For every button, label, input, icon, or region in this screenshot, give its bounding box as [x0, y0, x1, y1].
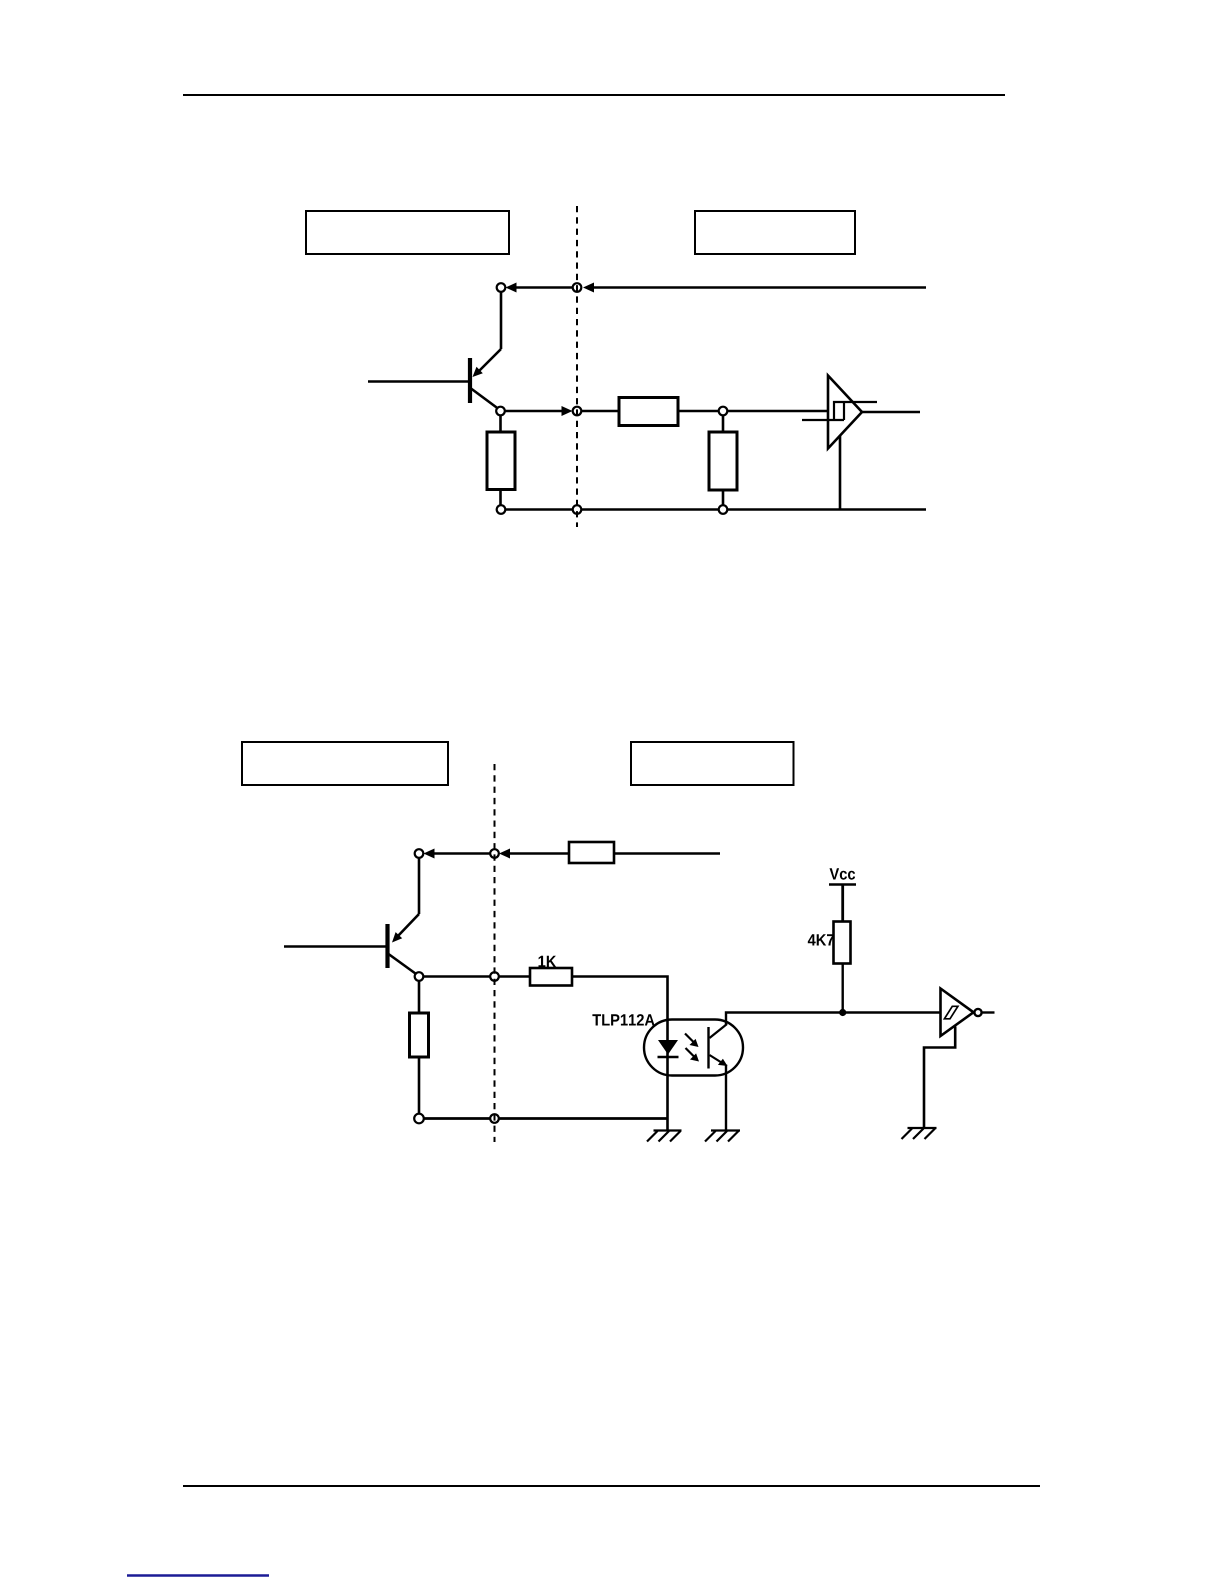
- wire (receiver reference to bottom net): [839, 436, 842, 510]
- node on barrier (bottom net 2): [490, 1114, 499, 1123]
- junction dot: [839, 1009, 846, 1016]
- wire (node C to receiver input): [728, 410, 829, 413]
- wire (bottom net, mid segment): [582, 508, 719, 511]
- phototransistor Q3 (inside optocoupler): [709, 1024, 728, 1069]
- transistor Q1 (PNP, open emitter up): [368, 293, 501, 411]
- wire (inverter output): [982, 1011, 995, 1013]
- ground (inverter): [902, 1128, 937, 1139]
- power Vcc: [829, 868, 856, 921]
- wire (resistor to node C): [678, 410, 719, 413]
- node on barrier (bottom net): [573, 505, 582, 514]
- inverter U3 (Schmitt trigger): [941, 989, 982, 1037]
- label box (top-left, isolated side): [306, 211, 509, 254]
- resistor R6 (pull-down, vertical, circuit 2): [410, 981, 429, 1114]
- label box (bottom-left, isolated side): [242, 742, 448, 785]
- node D (bottom net left): [497, 505, 506, 514]
- node on barrier (mid net 2): [490, 972, 499, 981]
- node on barrier (mid net): [573, 407, 582, 416]
- wire (phototransistor collector up and right to gate input): [726, 1013, 941, 1026]
- label box (bottom-right, logic side): [631, 742, 794, 785]
- transistor Q2 (PNP, open emitter up): [284, 859, 419, 976]
- wire (inverter ground pin, jog to ground): [924, 1027, 955, 1129]
- wire (top net, right segment): [592, 286, 926, 289]
- value label 1K: [539, 956, 557, 967]
- node H (bottom net 2, left): [414, 1114, 424, 1124]
- wire (resistor to barrier node): [510, 852, 569, 855]
- wire (bottom net 2 to LED cathode): [499, 1117, 668, 1120]
- value label 4K7: [808, 934, 834, 945]
- wire (barrier to series resistor): [582, 410, 620, 413]
- wire (bottom net, right segment): [728, 508, 927, 511]
- wire (R5 to LED anode, with corner): [572, 977, 668, 1040]
- wire (mid net, left segment): [505, 410, 562, 413]
- wire (bottom net 2, left segment): [424, 1117, 490, 1120]
- resistor R4 (series, horizontal): [569, 842, 614, 863]
- wire (top net 2, right segment): [614, 852, 720, 855]
- wire (top net, left segment): [516, 286, 573, 289]
- node G (collector node, circuit 2): [415, 972, 424, 981]
- node C (termination node): [719, 407, 728, 416]
- node E (bottom net right): [719, 505, 728, 514]
- resistor R3 (termination, vertical, right): [709, 416, 737, 506]
- isolation barrier dashed line (circuit 1): [576, 206, 578, 527]
- wire (barrier to emitter node 2): [435, 852, 491, 855]
- footer link underline: [127, 1574, 269, 1576]
- LED D1 (inside optocoupler): [658, 1039, 679, 1130]
- wire (R7 bottom to junction): [842, 964, 844, 1013]
- footer rule: [183, 1485, 1040, 1487]
- part label TLP112A: [592, 1014, 654, 1025]
- arrowhead at barrier node (pointing left): [583, 283, 594, 293]
- light arrows: [685, 1034, 699, 1062]
- resistor R7 (4K7 pull-up, vertical): [834, 922, 851, 964]
- node F (emitter node, circuit 2): [415, 849, 424, 858]
- node A (emitter node, circuit 1): [497, 283, 506, 292]
- optocoupler U2 TLP112A body: [644, 1020, 743, 1076]
- node on barrier (top net): [573, 283, 582, 292]
- label box (top-right, logic side): [695, 211, 855, 254]
- arrowhead at emitter node 2 (pointing left): [424, 849, 435, 859]
- wire (receiver output): [861, 411, 920, 414]
- op-amp U1 (line receiver with hysteresis): [802, 376, 877, 449]
- ground (phototransistor emitter): [705, 1131, 740, 1142]
- arrowhead at barrier node 2 (pointing left): [499, 849, 510, 859]
- node on barrier (top net 2): [490, 849, 499, 858]
- wire (barrier to resistor R5): [499, 975, 530, 978]
- ground (LED cathode): [647, 1131, 682, 1142]
- resistor R1 (series, horizontal): [619, 398, 678, 426]
- wire (bottom net, left segment): [506, 508, 573, 511]
- header rule: [183, 94, 1005, 96]
- resistor R2 (pull-down, vertical, left): [487, 416, 515, 506]
- wire (phototransistor emitter down to ground): [725, 1065, 727, 1131]
- arrowhead at emitter node (pointing left): [506, 283, 517, 293]
- node B (collector node, circuit 1): [496, 407, 505, 416]
- isolation barrier dashed line (circuit 2): [494, 764, 496, 1142]
- arrowhead at barrier node (pointing right): [562, 406, 573, 416]
- resistor R5 (1K, horizontal): [530, 968, 572, 986]
- wire (mid net 2, left segment): [424, 975, 491, 978]
